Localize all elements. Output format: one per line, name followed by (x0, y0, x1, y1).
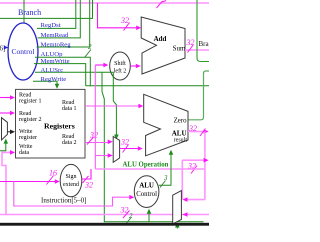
wire long green horizontal (to data memory, cropped) (86, 85, 209, 87)
wire Read data 1 to ALU (85, 105, 140, 107)
svg-text:Shift: Shift (114, 60, 126, 67)
wire sign-extend output long horizontal (95, 168, 205, 170)
svg-text:Registers: Registers (44, 122, 75, 131)
svg-text:32: 32 (188, 124, 197, 133)
svg-text:ALU Operation: ALU Operation (123, 162, 169, 169)
wire MemRead (green) (38, 0, 81, 38)
wire Read register 1 input (0, 97, 11, 99)
svg-text:Branch: Branch (18, 8, 41, 17)
wire MemtoReg mux input 2 / write data loop (6, 214, 209, 216)
wire RegDst control into mux bottom (0, 142, 6, 151)
adder Add (branch target) (141, 17, 186, 74)
svg-text:MemRead: MemRead (41, 32, 70, 39)
wire ALU control output to ALU (159, 154, 171, 186)
node arrow into Add top input (136, 26, 141, 31)
shifter Shift left 2 (110, 52, 131, 80)
svg-text:MemtoReg: MemtoReg (41, 41, 72, 48)
mux RegDst (write register mux) (2, 118, 8, 140)
extender Sign extend ellipse (60, 164, 82, 196)
wire Shift left 2 to Add (130, 65, 137, 67)
wire MemtoReg control arrow (from bottom) (176, 226, 178, 229)
svg-text:register 1: register 1 (19, 98, 42, 104)
wire ALUSrc mux output to ALU (120, 148, 139, 150)
svg-text:ALUSrc: ALUSrc (41, 67, 64, 74)
wire PC+4 to Add input (98, 3, 138, 28)
wire ALUOp descender to bottom (102, 72, 204, 222)
wire Instruction[15-0] into sign extend (0, 181, 56, 183)
svg-text:register: register (19, 135, 37, 141)
wire bus slash top right (157, 1, 163, 8)
svg-text:register 2: register 2 (19, 117, 42, 123)
svg-text:data 1: data 1 (62, 106, 77, 112)
wire MemtoReg mux input 1 (187, 199, 205, 201)
control unit ellipse (8, 23, 38, 80)
svg-text:data: data (19, 150, 29, 156)
wire Add Sum output (185, 49, 209, 51)
svg-text:Instruction[5–0]: Instruction[5–0] (41, 197, 87, 205)
wire MemtoReg (green) (37, 0, 90, 47)
alu ALU main (144, 94, 188, 156)
svg-text:2: 2 (88, 43, 92, 51)
wire sign-extend/shift vertical (94, 65, 96, 169)
svg-text:ALU: ALU (139, 181, 154, 189)
svg-text:ALU: ALU (172, 130, 187, 138)
svg-text:Zero: Zero (174, 117, 187, 124)
svg-text:32: 32 (120, 16, 129, 25)
svg-text:Sign: Sign (65, 174, 76, 180)
wire Read register 2 input (0, 112, 11, 114)
wire thick black bottom band (0, 223, 209, 226)
wire branch/zero out right (bright arrow) (182, 159, 204, 161)
svg-text:result: result (174, 138, 188, 144)
wire Write data input (from loop) (0, 152, 11, 214)
svg-text:RegWrite: RegWrite (41, 76, 67, 83)
wire into Shift left 2 (95, 64, 104, 66)
svg-text:left 2: left 2 (114, 68, 127, 75)
controller ALU control ellipse (134, 176, 159, 208)
mux MemtoReg (173, 191, 182, 224)
wire ALUSrc (green, to mux control) (35, 72, 116, 136)
wire Zero output (green) (188, 71, 209, 120)
wire ALU result output (188, 131, 204, 133)
svg-text:32: 32 (89, 131, 98, 140)
wire Branch (green) (0, 0, 93, 23)
svg-text:Sum: Sum (173, 45, 186, 53)
svg-text:data 2: data 2 (62, 140, 77, 146)
svg-text:Control: Control (12, 47, 35, 56)
wire ALU result down right side (204, 132, 206, 200)
wire green right-edge staircase (pale) (197, 0, 209, 62)
wire RegWrite (green, to Registers) (33, 81, 57, 85)
wire MemWrite (green) (34, 64, 86, 86)
wire to ALUSrc mux input 2 (95, 155, 109, 157)
wire ALUOp arrow into ALU control bottom (148, 213, 150, 222)
register file Registers box (16, 89, 86, 158)
svg-text:Add: Add (154, 35, 167, 43)
svg-text:Bra: Bra (199, 40, 210, 48)
svg-text:Control: Control (136, 191, 157, 198)
wire Instruction[5-0] to ALU control (14, 181, 131, 206)
svg-text:RegDst: RegDst (41, 22, 61, 29)
svg-text:32: 32 (84, 181, 93, 190)
wire Read data 2 to ALUSrc mux (85, 142, 109, 144)
wire ALUOp (green staircase to bottom) (35, 57, 90, 86)
wire sign extend output (82, 169, 91, 179)
wire mux to Write register (7, 131, 11, 133)
wire RegDst (green) (37, 0, 76, 28)
mux ALUSrc (113, 137, 119, 163)
svg-text:MemWrite: MemWrite (41, 58, 70, 65)
svg-text:extend: extend (63, 182, 79, 188)
wire PC+4 top horizontal (0, 2, 209, 4)
